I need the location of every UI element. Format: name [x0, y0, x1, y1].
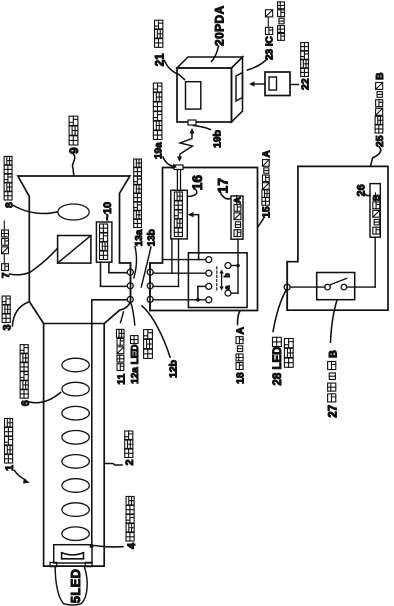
svg-text:27: 27 [327, 405, 339, 418]
svg-text:9: 9 [67, 147, 81, 154]
svg-text:b: b [225, 273, 232, 277]
svg-text:6: 6 [20, 400, 32, 406]
svg-text:16: 16 [189, 175, 205, 191]
svg-text:15: 15 [260, 206, 272, 218]
svg-text:13b: 13b [146, 229, 157, 246]
svg-text:B: B [372, 194, 382, 201]
svg-text:A: A [235, 327, 247, 335]
svg-text:20PDA: 20PDA [213, 5, 227, 46]
svg-text:19b: 19b [212, 130, 224, 148]
svg-text:18: 18 [235, 372, 247, 384]
svg-text:11: 11 [115, 373, 127, 384]
svg-text:5LED: 5LED [68, 569, 83, 603]
svg-text:12b: 12b [167, 360, 179, 378]
svg-text:12a LED: 12a LED [130, 344, 141, 383]
svg-text:B: B [374, 72, 386, 80]
svg-text:13a: 13a [134, 229, 145, 246]
svg-text:22: 22 [300, 78, 312, 90]
svg-text:a: a [225, 286, 232, 290]
svg-text:21: 21 [154, 53, 166, 66]
svg-text:4: 4 [126, 542, 138, 549]
svg-text:17: 17 [214, 178, 230, 194]
svg-text:B: B [327, 350, 339, 358]
svg-text:~10: ~10 [102, 202, 114, 221]
svg-text:7: 7 [0, 272, 12, 278]
svg-text:A: A [261, 150, 272, 157]
svg-text:28 LED: 28 LED [272, 347, 284, 386]
svg-text:A: A [233, 197, 243, 204]
svg-text:23 IC: 23 IC [265, 36, 276, 60]
svg-text:2: 2 [124, 459, 136, 465]
svg-text:25: 25 [374, 135, 386, 147]
